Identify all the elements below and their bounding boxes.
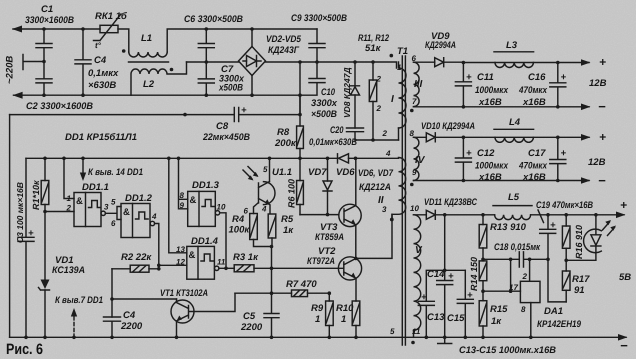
inductor L3 xyxy=(494,51,534,53)
svg-text:К выв. 14 DD1: К выв. 14 DD1 xyxy=(88,167,143,178)
svg-text:КД212А: КД212А xyxy=(359,182,391,193)
svg-text:DD1 КР15б11Л1: DD1 КР15б11Л1 xyxy=(65,132,137,143)
svg-text:+: + xyxy=(599,130,606,144)
svg-text:х16В: х16В xyxy=(478,172,502,183)
svg-text:470мкх: 470мкх xyxy=(518,161,547,172)
svg-text:VD8 КД247Д: VD8 КД247Д xyxy=(342,67,352,118)
svg-text:DА1: DА1 xyxy=(544,306,563,317)
svg-text:6: 6 xyxy=(111,219,116,228)
wire R1 to DD1.1 pin2 xyxy=(45,212,74,280)
core bar of L1/L2 choke xyxy=(129,61,169,63)
svg-text:VD11 КД238ВС: VD11 КД238ВС xyxy=(424,197,477,208)
svg-text:2: 2 xyxy=(382,129,388,138)
resistor R2 xyxy=(112,268,159,270)
svg-text:&: & xyxy=(189,250,196,261)
inductor L4 xyxy=(494,128,534,130)
svg-text:КР142ЕН19: КР142ЕН19 xyxy=(537,319,582,330)
svg-text:С10: С10 xyxy=(321,87,336,98)
svg-text:3300×1600В: 3300×1600В xyxy=(25,15,74,26)
svg-text:DD1.3: DD1.3 xyxy=(192,180,220,191)
svg-text:+: + xyxy=(241,105,247,116)
wire DD1.3 out down xyxy=(220,213,226,268)
wire return rail 2 xyxy=(414,180,590,182)
capacitor C1 xyxy=(36,29,52,62)
wire rectified mid rail xyxy=(187,62,397,68)
capacitor C8 xyxy=(10,108,300,122)
svg-text:+: + xyxy=(561,148,567,159)
svg-text:R10: R10 xyxy=(336,303,354,314)
resistor R5 xyxy=(268,214,276,238)
capacitor C11 xyxy=(455,63,471,107)
wire VT3 base rail xyxy=(300,214,339,216)
diode VD9 xyxy=(414,58,464,67)
svg-text:+: + xyxy=(448,271,454,282)
wire to primary pin 2 xyxy=(355,139,399,141)
resistor R8 xyxy=(297,126,304,149)
junction dots control area xyxy=(24,157,358,340)
wire rail to DD1.4 pin13 xyxy=(169,158,187,253)
svg-text:+: + xyxy=(28,228,34,239)
svg-text:R15: R15 xyxy=(490,304,508,315)
svg-text:×630В: ×630В xyxy=(88,80,116,91)
svg-text:I: I xyxy=(391,94,394,105)
svg-text:1к: 1к xyxy=(491,316,502,327)
wire control box left edge xyxy=(9,115,11,338)
svg-text:12В: 12В xyxy=(589,78,607,89)
svg-text:Рис. 6: Рис. 6 xyxy=(6,341,43,358)
svg-text:2200: 2200 xyxy=(240,322,263,333)
T1 winding IV xyxy=(414,137,419,180)
svg-text:6: 6 xyxy=(244,207,249,216)
svg-text:+: + xyxy=(599,55,606,69)
svg-text:С13: С13 xyxy=(427,312,445,323)
svg-text:RК1 1б: RК1 1б xyxy=(95,11,128,22)
svg-text:III: III xyxy=(414,79,423,90)
transformer T1 core xyxy=(402,56,405,345)
svg-text:1к: 1к xyxy=(283,225,294,236)
gate DD1.3 xyxy=(188,191,216,226)
svg-text:1: 1 xyxy=(67,194,72,203)
gate DD1.4 xyxy=(187,246,215,279)
svg-text:С2 3300×1600В: С2 3300×1600В xyxy=(26,101,93,112)
resistor R10 xyxy=(352,301,360,326)
svg-text:L1: L1 xyxy=(141,33,152,44)
wire ref links xyxy=(511,259,530,291)
svg-text:200к: 200к xyxy=(274,138,297,149)
svg-text:R2 22к: R2 22к xyxy=(121,252,152,263)
svg-text:R16 910: R16 910 xyxy=(574,225,584,259)
svg-text:С18 0,015мк: С18 0,015мк xyxy=(494,242,541,253)
svg-text:КТ859А: КТ859А xyxy=(315,232,344,243)
diode VD8 xyxy=(351,62,360,86)
svg-text:R1*10к: R1*10к xyxy=(31,180,41,210)
capacitor C16 xyxy=(550,63,566,107)
svg-text:3: 3 xyxy=(104,203,109,212)
capacitor C20 xyxy=(347,128,364,140)
capacitor C9 xyxy=(309,29,325,62)
junction dots mains section xyxy=(42,27,375,116)
resistor R14 xyxy=(479,261,487,281)
inductor L2 xyxy=(131,62,187,95)
svg-text:С8: С8 xyxy=(216,121,229,132)
svg-text:U1.1: U1.1 xyxy=(272,167,292,178)
svg-text:КС139А: КС139А xyxy=(52,265,85,276)
svg-text:1000мкх: 1000мкх xyxy=(475,85,509,96)
svg-text:5: 5 xyxy=(390,327,395,336)
svg-text:−: − xyxy=(598,173,606,188)
svg-text:3300х: 3300х xyxy=(311,98,338,109)
svg-text:+: + xyxy=(561,72,567,83)
svg-text:0,01мк×630В: 0,01мк×630В xyxy=(309,137,357,148)
svg-text:22мк×450В: 22мк×450В xyxy=(202,132,250,143)
svg-text:1: 1 xyxy=(397,63,402,72)
T1 primary winding I xyxy=(399,62,407,128)
svg-text:х500В: х500В xyxy=(218,83,243,94)
svg-text:9: 9 xyxy=(180,201,185,210)
capacitor C19 xyxy=(540,215,567,302)
svg-text:С20: С20 xyxy=(330,125,344,136)
svg-text:VT1 КТ3102А: VT1 КТ3102А xyxy=(160,288,208,299)
LED indicator xyxy=(595,215,597,235)
svg-text:12В: 12В xyxy=(588,157,606,168)
svg-text:~220В: ~220В xyxy=(5,56,16,84)
svg-text:R8: R8 xyxy=(277,127,290,138)
wire bottom mains rail xyxy=(14,95,301,114)
svg-text:4: 4 xyxy=(261,205,267,214)
resistor R16 xyxy=(565,215,567,226)
inductor L1 xyxy=(129,52,167,57)
svg-text:+: + xyxy=(421,292,427,303)
capacitor C14 block vertical xyxy=(418,215,465,337)
svg-text:VD6: VD6 xyxy=(336,167,355,178)
capacitor C4 timing xyxy=(104,317,121,321)
wire +12V rail 1 xyxy=(463,62,589,64)
node phasing dot L2 xyxy=(170,68,174,72)
node phasing dot primary xyxy=(390,54,394,58)
resistor R11 R12 snubber xyxy=(372,62,374,140)
node arrow to pin7 DD1 xyxy=(73,313,75,337)
svg-text:11: 11 xyxy=(412,327,421,336)
IC DA1 xyxy=(520,281,540,302)
wire divider node upper xyxy=(483,248,519,261)
svg-text:R9: R9 xyxy=(311,303,324,314)
capacitor C4 mains filter xyxy=(75,29,91,95)
svg-text:С3 100 мк×16В: С3 100 мк×16В xyxy=(15,182,25,243)
svg-text:100к: 100к xyxy=(229,225,251,236)
svg-text:С14: С14 xyxy=(427,269,445,280)
svg-text:8: 8 xyxy=(180,191,185,200)
svg-text:Т1: Т1 xyxy=(397,46,408,57)
node phasing dot winding II xyxy=(390,218,394,222)
svg-text:С15: С15 xyxy=(447,313,465,324)
capacitor C7 xyxy=(198,62,214,95)
wire C4 branch xyxy=(112,269,177,338)
junction dots 5V area xyxy=(481,213,598,339)
wire +12V rail 2 xyxy=(463,136,589,138)
svg-text:R13 910: R13 910 xyxy=(490,222,527,233)
resistor R4 xyxy=(250,214,258,240)
svg-text:С16: С16 xyxy=(528,72,546,83)
svg-text:С12: С12 xyxy=(477,148,495,159)
thermistor RK1 xyxy=(100,25,118,32)
svg-text:1: 1 xyxy=(341,314,346,325)
svg-text:10: 10 xyxy=(410,204,419,213)
capacitor C14 xyxy=(437,270,453,337)
svg-text:+: + xyxy=(620,198,627,212)
wire return rail 1 xyxy=(414,106,590,108)
svg-text:−: − xyxy=(598,99,606,114)
wire R7 rail xyxy=(235,292,329,294)
svg-text:11: 11 xyxy=(217,258,226,267)
svg-text:7: 7 xyxy=(412,97,417,106)
svg-text:L4: L4 xyxy=(509,117,521,128)
svg-text:КД2994А: КД2994А xyxy=(425,40,456,51)
svg-text:0,1мкх: 0,1мкх xyxy=(88,68,119,79)
resistor R3 xyxy=(219,267,344,269)
wire +5V rail xyxy=(445,214,624,216)
inductor L5 xyxy=(493,205,532,207)
transistor VT1 xyxy=(171,300,194,323)
svg-text:VD2-VD5: VD2-VD5 xyxy=(266,34,302,45)
svg-text:IV: IV xyxy=(415,155,426,166)
svg-text:+: + xyxy=(466,148,472,159)
capacitor C12 xyxy=(455,137,471,180)
node mains input arrow bottom xyxy=(13,92,23,99)
node mains input arrow top xyxy=(12,26,22,33)
wire primary ground rail xyxy=(10,336,626,338)
node ~220V input terminal xyxy=(23,55,44,70)
svg-text:12: 12 xyxy=(176,258,185,267)
svg-text:3: 3 xyxy=(382,205,387,214)
svg-text:L3: L3 xyxy=(506,40,518,51)
resistor R7 xyxy=(292,290,308,297)
T1 winding III xyxy=(414,62,420,106)
svg-text:2200: 2200 xyxy=(120,321,143,332)
optocoupler U1.1 xyxy=(264,182,276,205)
resistor R13 xyxy=(482,215,484,225)
svg-text:470мкх: 470мкх xyxy=(518,85,547,96)
transistor VT2 xyxy=(338,257,361,280)
svg-text:5: 5 xyxy=(111,198,116,207)
svg-text:2: 2 xyxy=(376,75,382,84)
svg-text:&: & xyxy=(190,195,197,206)
wire control supply rail xyxy=(26,157,338,159)
transistor VT3 xyxy=(339,204,361,226)
node arrow to pin14 DD1 xyxy=(82,158,84,176)
svg-text:+: + xyxy=(466,72,472,83)
gate DD1.1 xyxy=(74,193,101,227)
svg-text:С11: С11 xyxy=(477,72,494,83)
resistor R15 xyxy=(479,301,487,326)
wire R4 R5 bottoms join xyxy=(254,238,273,293)
capacitor C6 xyxy=(198,29,214,62)
ground symbol xyxy=(438,337,452,343)
capacitor C10 xyxy=(300,62,325,95)
svg-text:&: & xyxy=(76,196,83,207)
svg-text:10: 10 xyxy=(217,203,226,212)
svg-text:R17: R17 xyxy=(572,274,590,285)
resistor R1 xyxy=(44,158,46,211)
wire rail to DD1.3 pins xyxy=(179,158,188,209)
svg-text:5В: 5В xyxy=(619,272,631,283)
svg-text:2: 2 xyxy=(522,272,528,281)
svg-text:9: 9 xyxy=(412,168,417,177)
capacitor C18 xyxy=(519,252,548,267)
wire HV dropper vertical xyxy=(299,62,301,126)
wire top mains rail xyxy=(13,29,317,52)
svg-text:С1: С1 xyxy=(41,4,53,15)
diode VD7 xyxy=(323,158,332,191)
svg-text:С19 470мк×16В: С19 470мк×16В xyxy=(536,200,593,211)
svg-text:R6 100: R6 100 xyxy=(287,179,297,208)
svg-text:С13-С15 1000мк.х16В: С13-С15 1000мк.х16В xyxy=(459,345,556,356)
svg-text:R3 1к: R3 1к xyxy=(233,252,259,263)
svg-text:С5: С5 xyxy=(243,311,256,322)
capacitor C5 xyxy=(264,293,279,337)
svg-text:С17: С17 xyxy=(528,148,546,159)
svg-text:+: + xyxy=(550,220,556,231)
svg-text:VD6, VD7: VD6, VD7 xyxy=(358,168,394,179)
svg-text:51к: 51к xyxy=(365,43,382,54)
svg-text:L2: L2 xyxy=(143,79,155,90)
wire to DD1.1 pin1 xyxy=(64,158,74,198)
svg-text:L5: L5 xyxy=(508,192,520,203)
svg-text:1000мкх: 1000мкх xyxy=(475,161,509,172)
svg-text:К выв.7 DD1: К выв.7 DD1 xyxy=(55,295,103,306)
diode VD10 xyxy=(414,133,464,142)
svg-text:VD10 КД2994А: VD10 КД2994А xyxy=(421,121,475,132)
svg-text:С9 3300×500В: С9 3300×500В xyxy=(291,13,347,24)
svg-text:1: 1 xyxy=(315,314,320,325)
svg-text:х16В: х16В xyxy=(522,172,546,183)
svg-text:&: & xyxy=(123,207,130,218)
capacitor C17 xyxy=(550,137,566,180)
svg-text:R4: R4 xyxy=(232,214,245,225)
zener VD1 xyxy=(39,288,50,291)
capacitor C3 xyxy=(18,158,34,337)
svg-text:R5: R5 xyxy=(281,214,294,225)
bridge rectifier VD2-VD5 xyxy=(239,47,266,76)
svg-text:2: 2 xyxy=(66,204,72,213)
capacitor C15 xyxy=(457,270,473,337)
svg-text:5: 5 xyxy=(263,165,268,174)
wire divider node lower xyxy=(483,281,520,301)
svg-text:−: − xyxy=(620,338,628,353)
svg-text:91: 91 xyxy=(574,285,585,296)
resistor R17 xyxy=(565,248,567,271)
svg-text:4: 4 xyxy=(151,212,157,221)
svg-text:t°: t° xyxy=(95,41,102,50)
svg-text:DD1.1: DD1.1 xyxy=(82,182,109,193)
diode VD6 xyxy=(337,154,339,163)
T1 winding II xyxy=(349,158,406,220)
gate DD1.2 xyxy=(121,204,150,238)
wire DD1.2 out vertical xyxy=(155,224,187,269)
svg-text:КТ972А: КТ972А xyxy=(307,256,335,267)
svg-text:С4: С4 xyxy=(94,55,107,66)
svg-text:DD1.2: DD1.2 xyxy=(125,193,153,204)
svg-text:R7 470: R7 470 xyxy=(286,279,317,290)
svg-text:R14 150: R14 150 xyxy=(469,257,479,291)
svg-text:13: 13 xyxy=(176,245,185,254)
resistor R6 xyxy=(299,158,301,214)
svg-text:4: 4 xyxy=(385,149,391,158)
resistor R9 xyxy=(326,301,334,326)
T1 winding V xyxy=(414,215,421,330)
diode VD11 xyxy=(414,210,445,219)
svg-text:С6 3300×500В: С6 3300×500В xyxy=(184,14,243,25)
wire DD1.1 out to DD1.2 in xyxy=(105,207,121,220)
svg-text:8: 8 xyxy=(521,305,526,314)
svg-text:С4: С4 xyxy=(123,310,136,321)
svg-text:DD1.4: DD1.4 xyxy=(191,236,219,247)
svg-text:VD7: VD7 xyxy=(308,167,327,178)
svg-text:КД243Г: КД243Г xyxy=(268,45,300,56)
capacitor C2 xyxy=(36,62,52,96)
svg-text:×500В: ×500В xyxy=(311,109,337,120)
svg-text:2: 2 xyxy=(376,104,382,113)
node phasing dot L1 xyxy=(122,49,126,53)
